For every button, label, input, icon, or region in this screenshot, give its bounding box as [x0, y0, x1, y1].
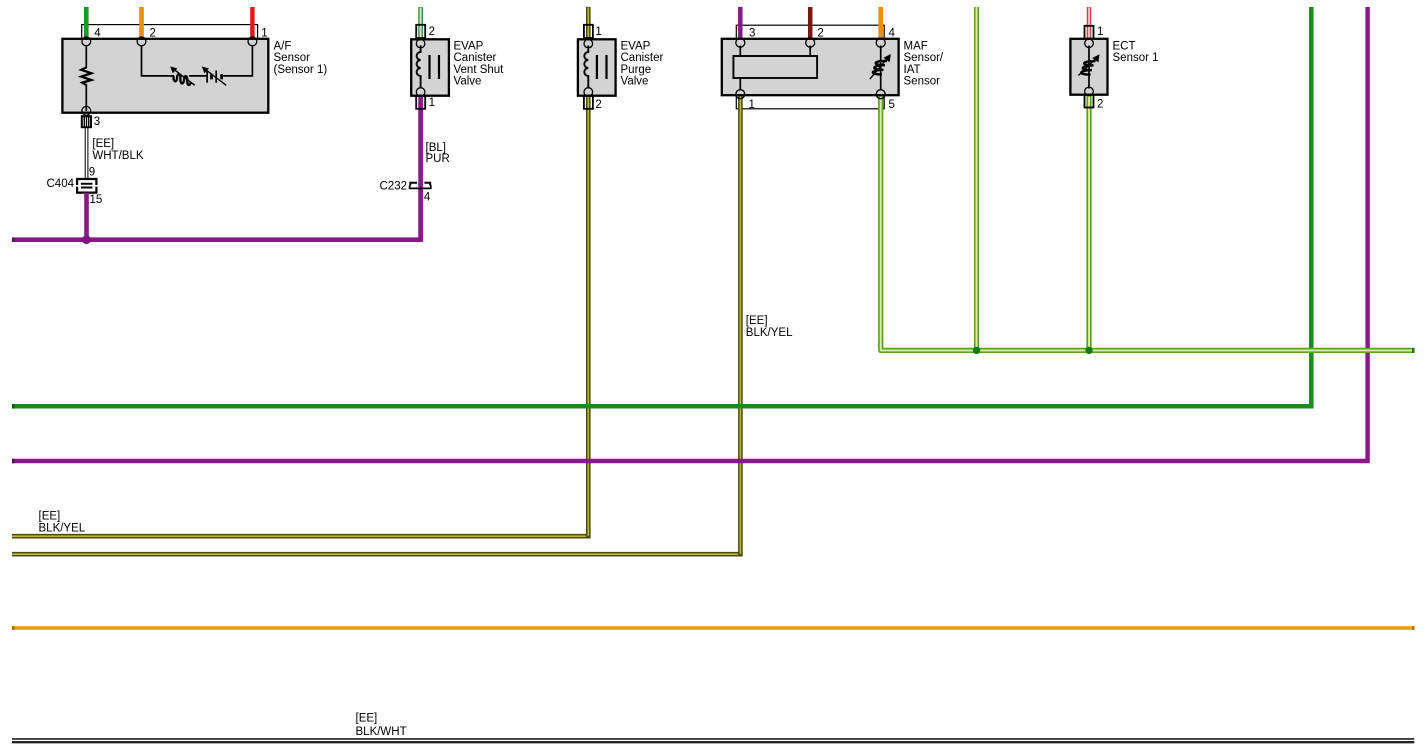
wire WHT/BLK pin3 to C404: [85, 127, 88, 178]
svg-text:4: 4: [889, 27, 896, 39]
ECT pin2 connector block: [1085, 95, 1094, 108]
svg-text:1: 1: [261, 27, 267, 39]
purge valve core bars: [597, 55, 607, 79]
ECT pin1 circle: [1085, 39, 1094, 48]
A/F internal lead pin4 to heater resistor: [85, 46, 87, 69]
ECT thermistor squiggle: [1081, 61, 1095, 74]
splice dot on PUR bus: [82, 235, 91, 244]
A/F heater loop wire pin2-pin1: [142, 46, 253, 76]
wire BLK/WHT ground bus bottom: [12, 739, 1414, 742]
ECT pin1 connector block: [1085, 26, 1094, 39]
wire ORN MAF pin4 top lead: [878, 7, 883, 42]
svg-text:1: 1: [429, 97, 435, 109]
splice dot on GRN bus at x1089: [1085, 347, 1092, 354]
purge valve pin2 connector block: [584, 96, 593, 109]
wire PUR stub from C404 down to bus: [84, 193, 89, 240]
MAF pin1 circle: [736, 90, 745, 99]
svg-text:Vent Shut: Vent Shut: [454, 64, 505, 76]
vent valve pin1 circle: [416, 88, 425, 97]
svg-text:2: 2: [429, 26, 435, 38]
svg-text:PUR: PUR: [426, 153, 450, 165]
svg-text:Sensor/: Sensor/: [904, 52, 944, 64]
connector C404 symbol: [77, 179, 96, 193]
purge valve pin2 circle: [584, 88, 593, 97]
svg-text:EVAP: EVAP: [454, 40, 484, 52]
svg-text:Canister: Canister: [621, 52, 664, 64]
wire RED A/F pin1 top lead: [250, 7, 254, 42]
MAF sensor connector band top: [736, 25, 884, 39]
wire GRN vertical trunk x976 from top edge down to splice: [974, 7, 979, 350]
wire DKRED MAF pin2 top lead: [808, 7, 813, 42]
svg-text:4: 4: [94, 27, 101, 39]
svg-text:3: 3: [94, 116, 100, 128]
A/F pin1 circle: [248, 37, 257, 46]
wire PUR horizontal bus y239.7 from left edge to EVAP vent valve: [12, 96, 421, 240]
MAF IAT thermistor lead: [880, 46, 882, 91]
svg-text:EVAP: EVAP: [621, 40, 651, 52]
svg-text:ECT: ECT: [1113, 40, 1136, 52]
svg-text:Sensor: Sensor: [904, 76, 941, 88]
dark end cap PUR bus left: [12, 459, 15, 463]
arrow across variable resistor: [174, 69, 195, 85]
A/F internal lead resistor to pin3: [85, 85, 87, 112]
wire ORN horizontal bus y628: [12, 626, 1414, 630]
svg-text:[BL]: [BL]: [426, 142, 446, 154]
svg-text:C404: C404: [47, 178, 75, 190]
MAF internal leads: [740, 46, 810, 91]
wire GRN A/F pin4 top lead: [84, 7, 89, 42]
wire GRN horizontal bus y350.4 from MAF pin5 elbow to right margin: [881, 340, 1415, 350]
A/F pin3 circle: [82, 106, 91, 115]
svg-text:2: 2: [1097, 98, 1103, 110]
MAF pin2 circle: [806, 38, 815, 47]
resistor A/F heater element zigzag: [81, 68, 91, 86]
MAF sensor box: [722, 39, 899, 95]
wire DKGRN trunk from top x1311 elbow to left edge y406.5: [12, 7, 1311, 406]
dark end cap DKGRN bus left: [12, 404, 15, 408]
ECT internal lead: [1088, 46, 1090, 89]
svg-text:3: 3: [749, 27, 755, 39]
svg-text:WHT/BLK: WHT/BLK: [92, 150, 143, 162]
ECT thermistor arrow: [1078, 59, 1095, 76]
A/F pin4 circle: [82, 37, 91, 46]
svg-text:C232: C232: [380, 181, 408, 193]
svg-text:Valve: Valve: [621, 76, 649, 88]
svg-text:1: 1: [1097, 26, 1103, 38]
purge valve pin1 circle: [584, 39, 593, 48]
svg-text:4: 4: [424, 192, 431, 204]
svg-text:2: 2: [595, 99, 601, 111]
A/F pin2 circle: [137, 37, 146, 46]
connector C232 symbol: [410, 183, 431, 189]
svg-text:Canister: Canister: [454, 52, 497, 64]
A/F sensor connector band: [82, 25, 258, 39]
MAF IAT thermistor squiggle: [873, 61, 887, 74]
wire GRN ECT pin2 down to splice: [1086, 95, 1091, 350]
solenoid coil purge valve: [584, 46, 588, 89]
MAF sensor connector band bottom: [736, 95, 884, 109]
EVAP purge valve pin1 connector block: [584, 25, 593, 38]
ECT sensor top lead RED: [1087, 7, 1092, 39]
svg-text:1: 1: [749, 99, 755, 111]
svg-text:2: 2: [150, 27, 156, 39]
svg-text:[EE]: [EE]: [39, 511, 61, 523]
variable resistor squiggle in A/F loop: [173, 74, 190, 85]
vent valve core bars: [430, 55, 440, 79]
svg-text:9: 9: [89, 166, 95, 178]
svg-text:1: 1: [595, 26, 601, 38]
EVAP vent shut valve top lead GRN: [418, 7, 423, 39]
wire GRN MAF pin5 down to bus corner: [878, 96, 883, 348]
svg-text:5: 5: [889, 99, 895, 111]
wire PUR MAF pin3 top lead: [738, 7, 743, 42]
dark end cap PUR upper bus left: [12, 238, 15, 242]
svg-text:[EE]: [EE]: [92, 138, 114, 150]
svg-text:BLK/YEL: BLK/YEL: [39, 523, 86, 535]
dark end cap GRN bus right: [1412, 348, 1415, 353]
EVAP vent valve pin2 connector block: [416, 25, 425, 38]
MAF internal element rectangle: [733, 56, 817, 78]
svg-text:BLK/WHT: BLK/WHT: [356, 726, 407, 738]
dark end cap ORN bus left: [12, 626, 15, 630]
wire BLK/YEL MAF pin1 down and left to edge: [12, 96, 740, 554]
svg-text:IAT: IAT: [904, 64, 921, 76]
wire ORN A/F pin2 top lead: [139, 7, 144, 42]
ECT sensor box: [1070, 39, 1107, 95]
A/F sensor box: [62, 39, 268, 113]
svg-text:Sensor: Sensor: [274, 52, 311, 64]
variable cell symbol in A/F loop: [206, 71, 208, 83]
wire PUR trunk from top x1367.6 elbow to left edge y461: [12, 7, 1368, 461]
A/F pin3 connector block: [82, 116, 91, 127]
arrow across cell symbol: [205, 69, 226, 85]
vent valve pin1 connector block: [416, 96, 425, 109]
svg-text:BLK/YEL: BLK/YEL: [746, 327, 793, 339]
ECT pin2 circle: [1085, 87, 1094, 96]
svg-text:15: 15: [90, 194, 103, 206]
vent valve pin2 circle: [416, 39, 425, 48]
solenoid coil vent valve: [417, 46, 421, 89]
MAF pin3 circle: [736, 38, 745, 47]
wire BLK/YEL purge valve pin2 down and left to edge: [12, 96, 588, 536]
EVAP purge valve box: [578, 39, 616, 95]
svg-text:Sensor 1: Sensor 1: [1113, 52, 1159, 64]
EVAP vent shut valve box: [411, 39, 449, 95]
svg-text:[EE]: [EE]: [746, 315, 768, 327]
dark end cap ORN bus right: [1412, 626, 1415, 630]
svg-text:Valve: Valve: [454, 76, 482, 88]
svg-text:[EE]: [EE]: [356, 713, 378, 725]
svg-text:2: 2: [817, 27, 823, 39]
svg-text:(Sensor 1): (Sensor 1): [274, 64, 328, 76]
svg-text:Purge: Purge: [621, 64, 652, 76]
svg-text:MAF: MAF: [904, 40, 928, 52]
svg-text:A/F: A/F: [274, 40, 292, 52]
MAF IAT thermistor arrow: [870, 59, 887, 79]
EVAP purge valve top lead BLK/YEL: [586, 7, 591, 39]
splice dot on GRN bus at x976: [973, 347, 980, 354]
MAF pin4 circle: [876, 38, 885, 47]
MAF pin5 circle: [876, 90, 885, 99]
